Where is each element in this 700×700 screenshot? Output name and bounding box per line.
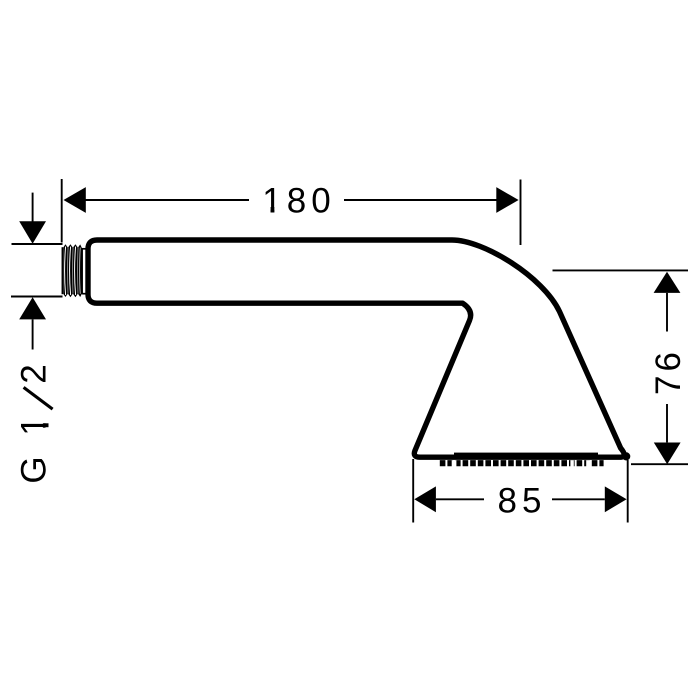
dim 85: line left segment — [436, 498, 484, 500]
dim 76: lower arrowhead (down) — [654, 443, 681, 465]
spray face right corner fill — [622, 452, 630, 460]
dim 180: left extension line — [61, 179, 63, 243]
dim 180: line right segment — [344, 199, 497, 201]
dim 180: left arrowhead — [64, 187, 86, 213]
svg-text:85: 85 — [498, 482, 547, 521]
svg-text:180: 180 — [262, 181, 335, 220]
dim 76: upper arrowhead (up) — [654, 272, 681, 293]
spray face plate — [454, 453, 598, 456]
nozzle row — [440, 460, 604, 466]
dim 76: bottom extension line — [631, 463, 688, 465]
dim 180: line left segment — [85, 199, 249, 201]
dim 76: lower tail — [666, 404, 668, 442]
thread dim: upper arrowhead (down) — [19, 221, 46, 244]
thread-to-body bridge top — [82, 248, 86, 250]
svg-text:2: 2 — [15, 364, 54, 383]
dim 85: right arrowhead — [605, 486, 627, 512]
thread white streaks — [65, 247, 81, 296]
dim 76: top extension line — [553, 269, 689, 271]
thread right edge — [81, 248, 83, 294]
svg-text:76: 76 — [649, 348, 688, 395]
dim 85: right extension line — [627, 460, 629, 523]
dim 76: upper tail — [666, 293, 668, 332]
serif trim of digit 1 — [264, 209, 270, 213]
serif trim of rotated digit 1 — [42, 417, 47, 423]
thread dim: top extension line — [12, 243, 63, 245]
dim 180: right arrowhead — [496, 187, 518, 213]
thread dim: bottom extension line — [11, 296, 63, 298]
dim 85: line right segment — [552, 498, 605, 500]
thread left edge — [61, 247, 63, 294]
label G 1/2: fraction slash — [24, 387, 53, 409]
thread-to-body bridge bottom — [82, 293, 86, 295]
shower head outline — [88, 240, 624, 457]
thread dim: upper tail — [32, 193, 34, 223]
dim 85: left arrowhead — [414, 486, 436, 512]
thread dim: lower arrowhead (up) — [19, 297, 46, 319]
dim 85: left extension line — [412, 459, 414, 523]
thread body mass — [63, 244, 82, 297]
nozzle row gap 2 — [570, 460, 573, 467]
nozzle row gap 1 — [452, 460, 457, 467]
svg-text:G: G — [15, 456, 54, 483]
dim 180: right extension line — [520, 180, 522, 246]
thread dim: lower tail — [32, 319, 34, 349]
nozzle row gap 3 — [586, 460, 590, 467]
